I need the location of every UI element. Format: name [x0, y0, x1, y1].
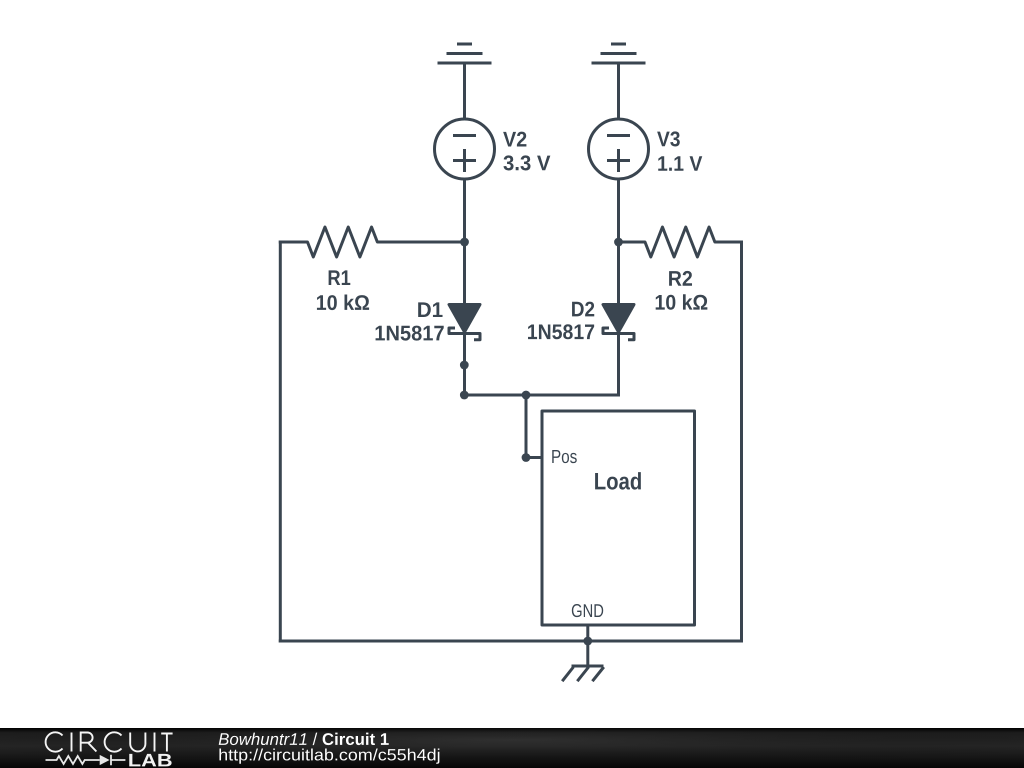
wire stub to load pos [526, 395, 542, 458]
wire to ground [586, 641, 589, 666]
value 10 kOhm R1 [317, 295, 369, 311]
pin label Pos [552, 450, 576, 463]
label R1 [329, 270, 351, 285]
value 1N5817 D1 [376, 326, 444, 341]
logo resistor-diode wire [46, 755, 126, 765]
node B junction dot [614, 238, 623, 247]
wire ground to V2 [463, 65, 466, 120]
logo LAB text [129, 754, 171, 767]
junction dot cathode bus tap [522, 391, 531, 400]
resistor R1 [280, 227, 464, 257]
value 1N5817 D2 [528, 324, 594, 339]
value 3.3 V [503, 155, 550, 170]
ground (earth) above V3 [593, 44, 644, 63]
resistor R2 [619, 227, 742, 257]
junction dot bottom wire [583, 637, 592, 646]
wire V3 to node B [617, 179, 620, 242]
junction dot load pos [522, 453, 531, 462]
wire load GND stub [586, 625, 589, 641]
label D2 [572, 302, 594, 317]
load box [542, 411, 695, 625]
wire ground to V3 [617, 65, 620, 120]
diode D2 (schottky) [603, 305, 634, 340]
wire cathode bus [465, 394, 619, 397]
junction dot cathode bus left [460, 391, 469, 400]
junction dot D1 cathode [460, 361, 469, 370]
wire bottom [280, 640, 741, 643]
wire V2 to node A [463, 179, 466, 242]
label V3 [657, 131, 680, 146]
footer bar [0, 728, 1024, 768]
wire node A to D1 anode [463, 242, 466, 303]
label R2 [669, 271, 692, 286]
wire left loop [279, 242, 282, 641]
label D1 [418, 302, 442, 317]
ground (signal) at bottom [562, 666, 604, 681]
ground (earth) above V2 [439, 44, 490, 63]
wire right loop [740, 242, 743, 641]
value 10 kOhm R2 [656, 294, 708, 310]
pin label GND [572, 604, 603, 617]
voltage source V2 [435, 119, 495, 179]
footer title line [219, 733, 389, 745]
wire D1 cathode down [463, 334, 466, 396]
logo CIRCUIT wordmark [46, 732, 173, 751]
voltage source V3 [589, 119, 649, 179]
wire D2 cathode down [617, 334, 620, 396]
footer url line [219, 749, 439, 764]
diode D1 (schottky) [449, 305, 480, 340]
label V2 [503, 132, 526, 147]
value 1.1 V [658, 156, 702, 171]
wire node B to D2 anode [617, 242, 620, 303]
node A junction dot [460, 238, 469, 247]
label Load [595, 472, 641, 490]
